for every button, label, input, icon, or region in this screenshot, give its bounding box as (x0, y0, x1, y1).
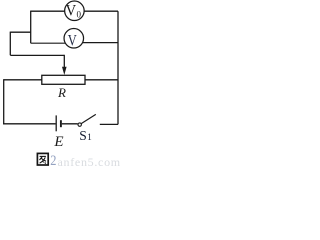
wire left mid vertical x=10.3 (9, 32, 11, 56)
wire jog horizontal y=32 (10, 31, 30, 33)
switch pivot circle (78, 123, 81, 126)
svg-text:1: 1 (87, 132, 92, 142)
caption glyph tu (图) drawn as paths (37, 153, 48, 165)
svg-text:S: S (79, 128, 87, 143)
wire bottom mid segment (62, 123, 78, 125)
wire slider horizontal y=55.2 (10, 54, 64, 56)
battery short plate (60, 120, 62, 127)
battery long plate (55, 115, 57, 131)
svg-text:anfen5.com: anfen5.com (58, 155, 121, 168)
wire bottom right segment (100, 123, 118, 125)
wire left bottom vertical x=3.7 (3, 79, 5, 124)
wire bottom left segment (3, 123, 55, 125)
voltmeter U2 V circle (64, 29, 84, 49)
wire V left branch (31, 42, 66, 44)
svg-text:2: 2 (50, 153, 56, 168)
wire left jog vertical x=30.7 (30, 11, 32, 44)
wire resistor row (4, 79, 118, 81)
slider arrowhead (62, 67, 67, 75)
svg-text:R: R (57, 85, 66, 100)
svg-text:0: 0 (77, 9, 82, 19)
wire right vertical (117, 11, 119, 124)
resistor R body (42, 75, 85, 84)
wire slider stem (63, 55, 65, 69)
svg-text:V: V (68, 33, 77, 50)
wire V right branch (82, 42, 118, 44)
switch lever (81, 114, 96, 123)
svg-text:E: E (53, 134, 63, 150)
wire top V0 branch (31, 10, 118, 12)
svg-text:V: V (66, 3, 77, 20)
voltmeter U1 V0 circle (65, 1, 85, 21)
